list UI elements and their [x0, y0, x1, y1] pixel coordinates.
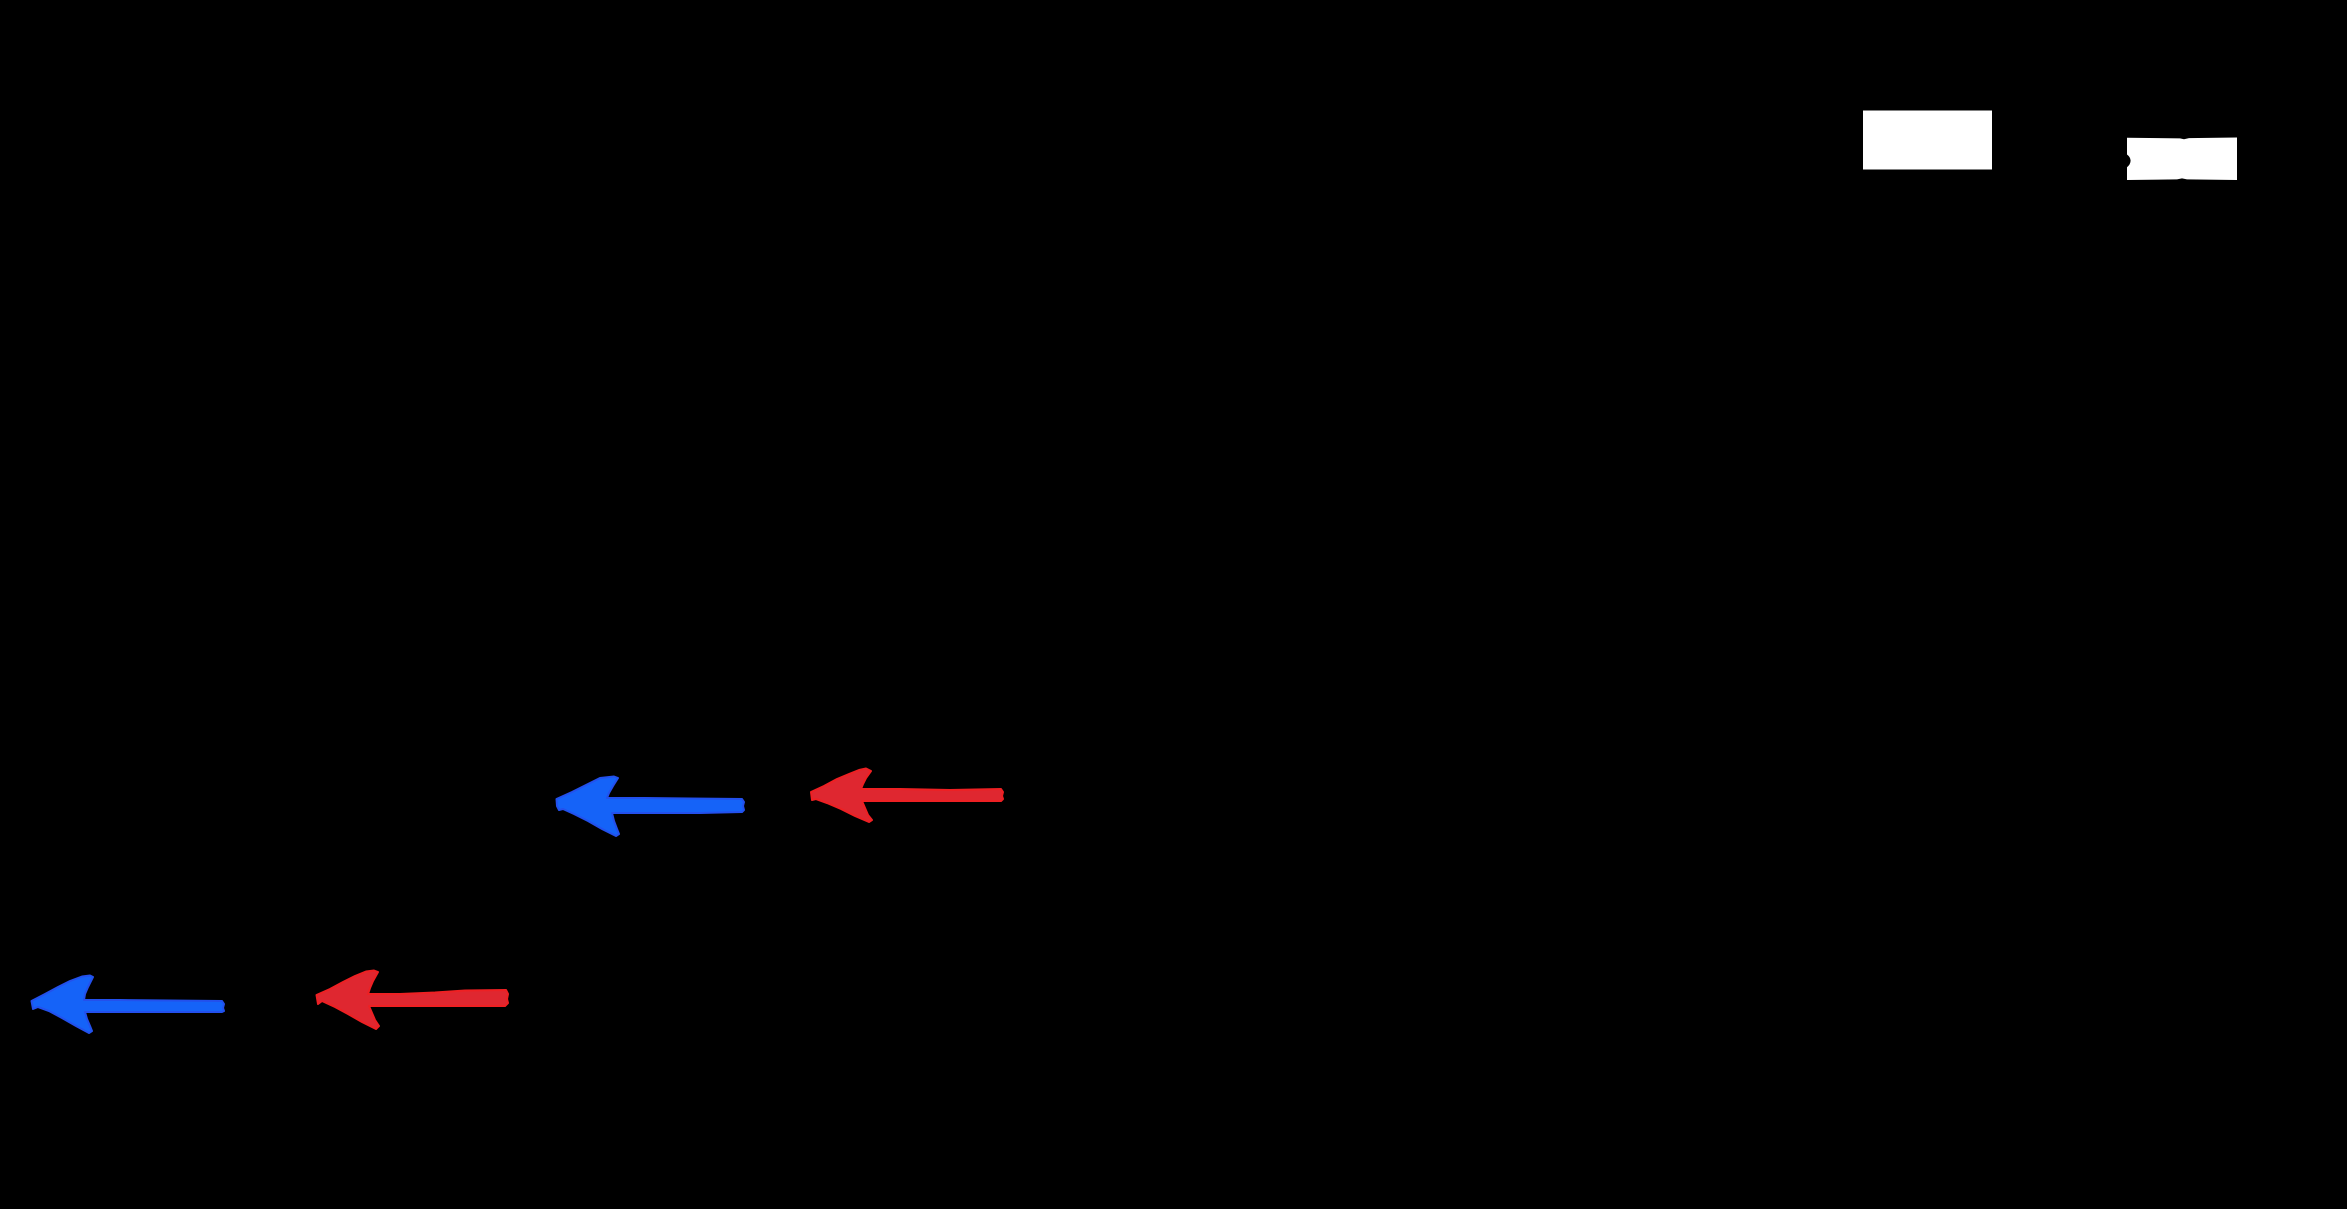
blue arrow A [557, 777, 745, 837]
white box 2 [2127, 138, 2237, 181]
red arrow B [811, 769, 1003, 823]
blue arrow C [32, 976, 225, 1034]
red arrow D [317, 971, 509, 1030]
white box 1 [1863, 111, 1992, 170]
